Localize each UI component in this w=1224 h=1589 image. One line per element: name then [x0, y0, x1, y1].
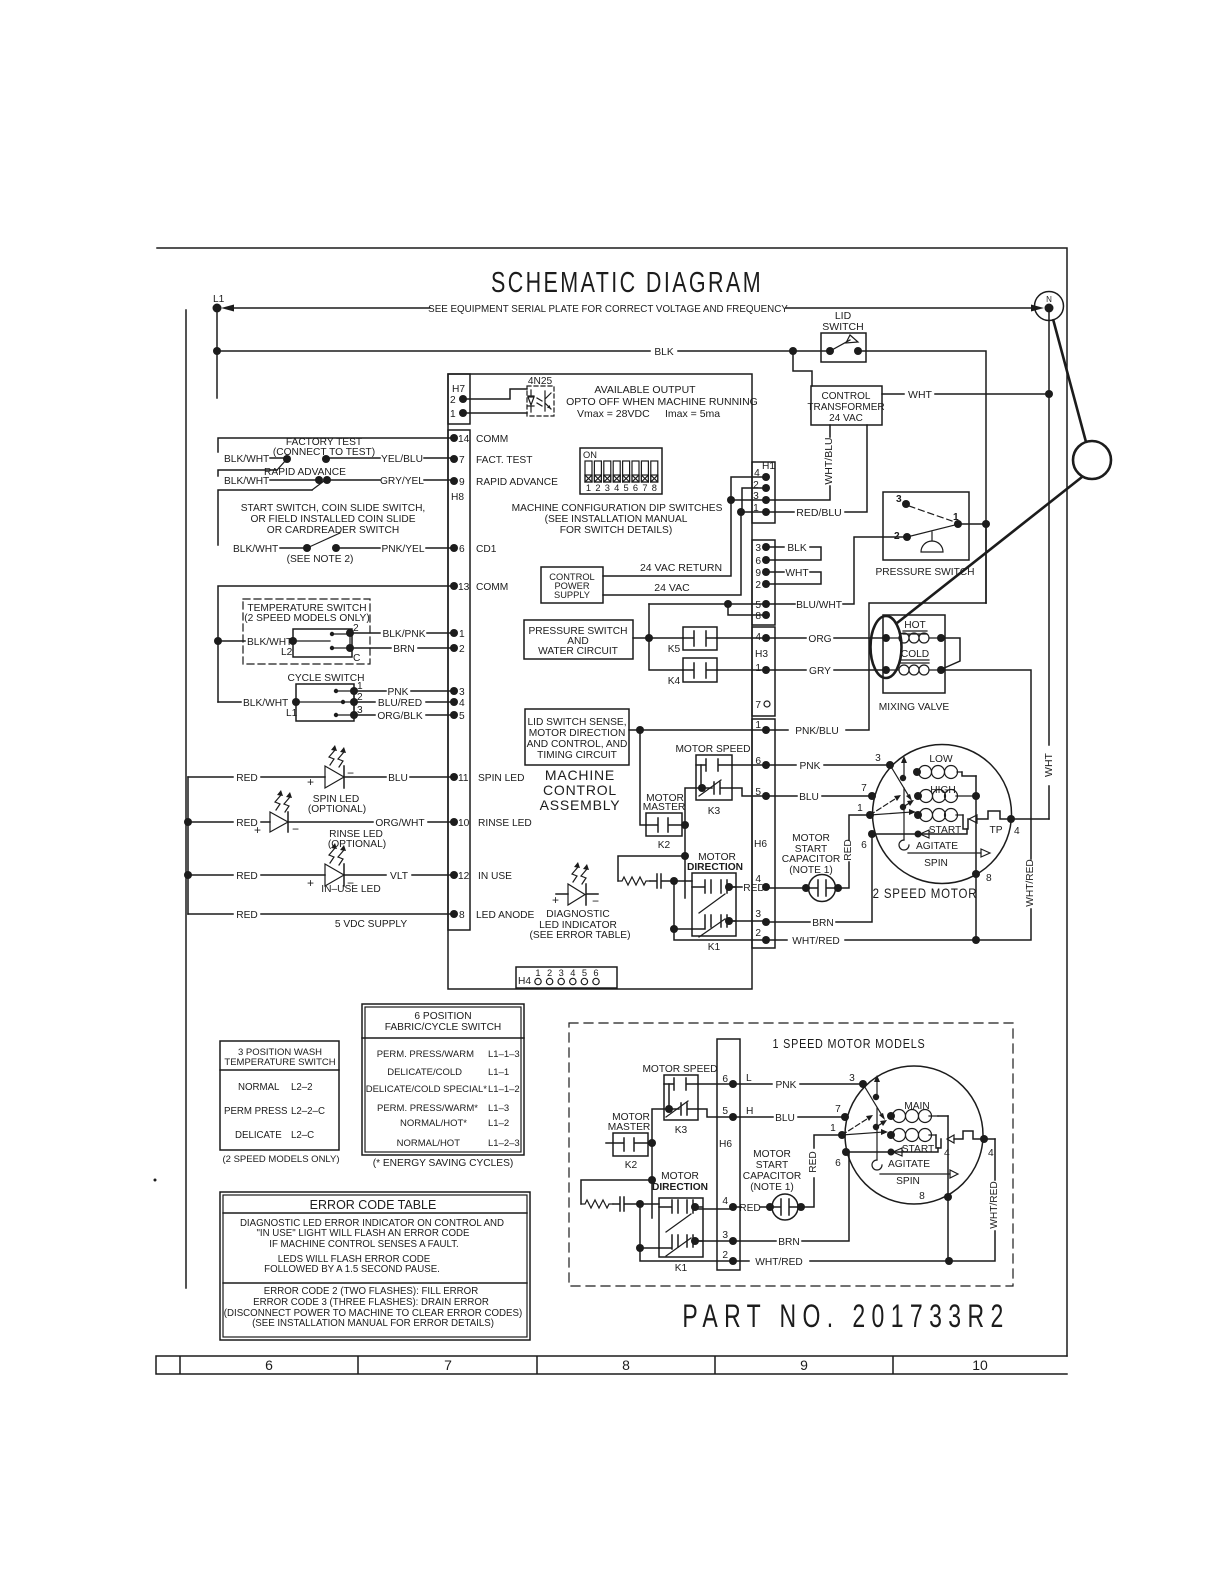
svg-text:4: 4: [988, 1148, 994, 1159]
svg-text:+: +: [307, 775, 314, 789]
svg-text:WHT: WHT: [785, 568, 808, 579]
svg-text:4: 4: [1014, 826, 1020, 837]
svg-text:OPTO OFF WHEN MACHINE RUNNING: OPTO OFF WHEN MACHINE RUNNING: [566, 396, 758, 408]
svg-text:WHT/RED: WHT/RED: [792, 936, 840, 947]
relay contact K2 (1 speed): [606, 1112, 652, 1171]
pin 2: [755, 580, 770, 591]
svg-text:NORMAL: NORMAL: [238, 1082, 280, 1093]
svg-text:RED: RED: [808, 1151, 819, 1173]
svg-text:MACHINE CONFIGURATION DIP SWIT: MACHINE CONFIGURATION DIP SWITCHES: [512, 503, 723, 514]
svg-text:RED: RED: [739, 1203, 761, 1214]
svg-text:PNK: PNK: [800, 761, 821, 772]
svg-text:OR FIELD INSTALLED COIN SLIDE: OR FIELD INSTALLED COIN SLIDE: [250, 514, 415, 525]
svg-text:BLK/WHT: BLK/WHT: [224, 476, 269, 487]
svg-text:13: 13: [458, 582, 470, 593]
svg-text:Imax = 5ma: Imax = 5ma: [665, 408, 720, 420]
pin 5: [450, 711, 465, 722]
svg-text:AVAILABLE OUTPUT: AVAILABLE OUTPUT: [594, 384, 696, 396]
svg-text:AGITATE: AGITATE: [888, 1159, 930, 1170]
svg-text:YEL/BLU: YEL/BLU: [381, 454, 423, 465]
svg-text:K2: K2: [658, 840, 671, 851]
svg-text:(* ENERGY SAVING CYCLES): (* ENERGY SAVING CYCLES): [373, 1158, 514, 1169]
svg-text:9: 9: [459, 477, 465, 488]
svg-text:DIRECTION: DIRECTION: [687, 862, 743, 873]
wire snubber/K1 to WHT/RED: [670, 881, 766, 940]
svg-text:5 VDC SUPPLY: 5 VDC SUPPLY: [335, 919, 407, 930]
svg-text:2: 2: [755, 580, 761, 591]
svg-text:−: −: [592, 894, 599, 908]
svg-text:4: 4: [570, 968, 575, 978]
svg-text:LED ANODE: LED ANODE: [476, 910, 535, 921]
rinse LED: [188, 790, 454, 850]
svg-text:START: START: [756, 1160, 788, 1171]
right strip segment 4 (H6): [752, 719, 775, 948]
pin 13 COMM: [450, 582, 508, 593]
svg-text:VLT: VLT: [390, 871, 408, 882]
svg-text:MOTOR: MOTOR: [661, 1171, 699, 1182]
svg-text:RED: RED: [236, 910, 258, 921]
svg-text:BLU/RED: BLU/RED: [378, 698, 422, 709]
svg-text:TIMING CIRCUIT: TIMING CIRCUIT: [537, 750, 617, 761]
pin 4: [450, 698, 465, 709]
wire 24 VAC: [603, 512, 741, 595]
relay contact K1 (1 speed): [652, 1171, 708, 1274]
svg-text:COMM: COMM: [476, 434, 508, 445]
wire K1 to pin 4 RED: [729, 886, 742, 888]
svg-text:7: 7: [861, 783, 867, 794]
svg-text:3: 3: [559, 968, 564, 978]
svg-text:GRY: GRY: [809, 666, 831, 677]
svg-text:3: 3: [605, 483, 610, 493]
wire BLK: [213, 347, 830, 358]
svg-text:RED: RED: [843, 839, 854, 861]
svg-text:L1: L1: [286, 708, 298, 719]
svg-text:H3: H3: [755, 649, 768, 660]
wire WHT jumper pins 9-2: [766, 568, 821, 584]
svg-text:DELICATE: DELICATE: [235, 1130, 282, 1141]
svg-text:BRN: BRN: [778, 1237, 800, 1248]
svg-text:8: 8: [755, 611, 761, 622]
relay contact K3 (motor speed): [675, 744, 766, 817]
svg-text:1: 1: [459, 629, 465, 640]
pin 9 RAPID ADVANCE: [450, 477, 558, 488]
LOW winding: [913, 754, 976, 779]
svg-text:−: −: [292, 822, 299, 836]
svg-text:ERROR CODE 2 (TWO FLASHES): FI: ERROR CODE 2 (TWO FLASHES): FILL ERROR: [264, 1286, 478, 1297]
wire BLU to terminal 7 (1 speed): [733, 1104, 849, 1124]
pressure switch and water circuit box: [524, 620, 683, 659]
svg-text:ORG: ORG: [808, 634, 831, 645]
svg-text:H4: H4: [518, 976, 531, 987]
wire BLU to motor terminal 7: [766, 783, 876, 803]
svg-text:AGITATE: AGITATE: [916, 841, 958, 852]
HIGH winding: [914, 785, 980, 803]
svg-text:LOW: LOW: [929, 754, 953, 765]
svg-text:AND CONTROL, AND: AND CONTROL, AND: [527, 739, 628, 750]
svg-text:WHT/RED: WHT/RED: [1025, 859, 1036, 907]
svg-text:L2: L2: [281, 647, 293, 658]
svg-text:5: 5: [624, 483, 629, 493]
svg-text:4: 4: [722, 1196, 728, 1207]
svg-text:3: 3: [849, 1073, 855, 1084]
pin 6 PNK: [755, 756, 770, 769]
svg-text:2: 2: [755, 928, 761, 939]
svg-text:2: 2: [722, 1250, 728, 1261]
svg-text:NORMAL/HOT: NORMAL/HOT: [397, 1138, 461, 1149]
svg-text:C: C: [353, 653, 360, 664]
rapid advance switch row: [218, 467, 454, 490]
error code table: [220, 1192, 530, 1340]
svg-text:RAPID ADVANCE: RAPID ADVANCE: [264, 467, 346, 478]
svg-text:BRN: BRN: [393, 644, 415, 655]
svg-text:BLU: BLU: [388, 773, 408, 784]
svg-text:SWITCH: SWITCH: [822, 321, 863, 333]
pin 1 GRY: [755, 663, 770, 674]
wire BLK to control transformer: [793, 351, 812, 386]
pin 3: [450, 687, 465, 698]
svg-text:8: 8: [986, 873, 992, 884]
svg-text:6: 6: [265, 1357, 273, 1373]
svg-text:6: 6: [755, 556, 761, 567]
svg-text:WATER CIRCUIT: WATER CIRCUIT: [538, 646, 618, 657]
RC snubber (1 speed): [581, 1180, 659, 1211]
svg-text:MASTER: MASTER: [608, 1122, 650, 1133]
svg-text:FOLLOWED BY A 1.5 SECOND PAUSE: FOLLOWED BY A 1.5 SECOND PAUSE.: [264, 1264, 440, 1275]
svg-text:8: 8: [652, 483, 657, 493]
svg-text:L1–2: L1–2: [488, 1118, 509, 1129]
svg-text:H8: H8: [451, 492, 464, 503]
connector H7: [448, 374, 470, 424]
svg-text:7: 7: [642, 483, 647, 493]
wire BLK jumper pins 3-6: [766, 543, 821, 560]
svg-text:L1: L1: [213, 294, 225, 305]
wire lid switch to pressure switch pin1: [858, 351, 986, 603]
mixing valve: [879, 615, 950, 713]
speed selector arrows: [870, 756, 916, 850]
svg-text:TRANSFORMER: TRANSFORMER: [807, 402, 884, 413]
svg-text:PERM. PRESS/WARM: PERM. PRESS/WARM: [377, 1049, 474, 1060]
svg-text:PART NO. 201733R2: PART NO. 201733R2: [682, 1298, 1009, 1334]
svg-text:START SWITCH, COIN SLIDE SWITC: START SWITCH, COIN SLIDE SWITCH,: [241, 503, 426, 514]
1 speed motor: [845, 1066, 983, 1204]
svg-text:1: 1: [535, 968, 540, 978]
agitate/spin arrows: [872, 829, 990, 869]
svg-text:PERM. PRESS/WARM*: PERM. PRESS/WARM*: [377, 1103, 478, 1114]
svg-text:PRESSURE SWITCH: PRESSURE SWITCH: [875, 567, 974, 578]
connector H8 strip (left): [448, 430, 470, 930]
svg-text:L1–1–2: L1–1–2: [488, 1084, 520, 1095]
svg-text:L2–2: L2–2: [291, 1082, 313, 1093]
text available output note: [566, 384, 758, 420]
speed selector arrows (1 speed): [842, 1075, 888, 1170]
wire GRY: [766, 666, 886, 677]
svg-text:GRY/YEL: GRY/YEL: [380, 476, 424, 487]
wire snubber/K1 to WHT/RED (1 speed): [636, 1204, 733, 1261]
relay contact K2 (motor master): [643, 793, 685, 851]
svg-text:MACHINE: MACHINE: [545, 767, 615, 783]
svg-text:SCHEMATIC DIAGRAM: SCHEMATIC DIAGRAM: [491, 267, 763, 299]
factory test switch row: [218, 437, 454, 470]
svg-text:(2 SPEED MODELS ONLY): (2 SPEED MODELS ONLY): [244, 613, 370, 624]
svg-text:BLK: BLK: [787, 543, 806, 554]
machine control assembly box: [448, 374, 752, 989]
svg-text:TP: TP: [989, 825, 1002, 836]
svg-text:K1: K1: [675, 1263, 688, 1274]
relay contact K1 (motor direction): [687, 852, 743, 953]
svg-text:BLU: BLU: [775, 1113, 795, 1124]
svg-text:ERROR CODE 3 (THREE FLASHES):: ERROR CODE 3 (THREE FLASHES): DRAIN ERRO…: [253, 1297, 489, 1308]
5VDC supply rail: [184, 777, 192, 914]
svg-text:(OPTIONAL): (OPTIONAL): [308, 804, 366, 815]
svg-text:2: 2: [894, 531, 900, 542]
START winding: [914, 809, 968, 837]
svg-text:SPIN: SPIN: [924, 858, 948, 869]
svg-text:BLU/WHT: BLU/WHT: [796, 600, 842, 611]
svg-text:PNK/BLU: PNK/BLU: [795, 726, 839, 737]
svg-text:MOTOR: MOTOR: [792, 833, 830, 844]
svg-text:1: 1: [857, 803, 863, 814]
svg-text:CAPACITOR: CAPACITOR: [782, 854, 841, 865]
2 speed motor: [873, 745, 1012, 902]
svg-text:TEMPERATURE SWITCH: TEMPERATURE SWITCH: [224, 1057, 335, 1068]
pin 4 ORG: [755, 632, 770, 643]
wire RED/BLU (transformer to H1 pin1): [737, 425, 867, 519]
pin 3 BRN: [755, 909, 770, 926]
node L1: [213, 294, 235, 313]
svg-text:FACT. TEST: FACT. TEST: [476, 455, 532, 466]
svg-text:BLK: BLK: [654, 347, 673, 358]
relay contact K5: [668, 627, 766, 655]
svg-text:6 POSITION: 6 POSITION: [414, 1011, 471, 1022]
svg-text:6: 6: [633, 483, 638, 493]
svg-text:RAPID ADVANCE: RAPID ADVANCE: [476, 477, 558, 488]
svg-text:WHT: WHT: [1043, 752, 1055, 776]
svg-text:(SEE NOTE 2): (SEE NOTE 2): [287, 554, 354, 565]
pin 1: [450, 629, 465, 640]
cycle switch: [218, 673, 454, 722]
motor terminal 1: [857, 803, 874, 819]
svg-text:3: 3: [722, 1230, 728, 1241]
svg-text:8: 8: [622, 1357, 630, 1373]
svg-text:K5: K5: [668, 644, 681, 655]
relay contact K3 (1 speed): [642, 1064, 733, 1136]
svg-text:−: −: [347, 766, 354, 780]
svg-text:L: L: [746, 1073, 752, 1084]
svg-text:MIXING VALVE: MIXING VALVE: [879, 702, 950, 713]
svg-text:FOR SWITCH DETAILS): FOR SWITCH DETAILS): [560, 525, 672, 536]
svg-text:7: 7: [444, 1357, 452, 1373]
svg-text:4: 4: [614, 483, 619, 493]
svg-text:CONTROL: CONTROL: [822, 391, 871, 402]
svg-text:7: 7: [755, 700, 761, 711]
right strip segment 3 (H3): [752, 627, 775, 716]
svg-text:WHT/BLU: WHT/BLU: [823, 437, 835, 484]
pin 2 WHT/RED: [755, 928, 770, 944]
START winding (1 speed): [887, 1129, 950, 1160]
svg-text:2: 2: [753, 480, 759, 491]
svg-text:WHT/RED: WHT/RED: [989, 1181, 1000, 1229]
svg-text:IN–USE LED: IN–USE LED: [321, 884, 380, 895]
pin 9 WHT: [755, 568, 770, 579]
terminal 6 (1 speed): [835, 1148, 850, 1169]
svg-text:+: +: [307, 876, 314, 890]
svg-text:ERROR CODE TABLE: ERROR CODE TABLE: [310, 1198, 437, 1212]
svg-text:L1–1–3: L1–1–3: [488, 1049, 520, 1060]
svg-text:+: +: [552, 893, 559, 907]
thermal protector TP: [969, 811, 1011, 836]
svg-text:K3: K3: [675, 1125, 688, 1136]
pin 2: [450, 644, 465, 655]
svg-text:(SEE INSTALLATION MANUAL: (SEE INSTALLATION MANUAL: [545, 514, 688, 525]
relay contact K4: [668, 658, 766, 687]
svg-text:BRN: BRN: [812, 918, 834, 929]
pin 14 COMM: [450, 434, 508, 445]
svg-text:2: 2: [547, 968, 552, 978]
wire PNK to terminal 3 (1 speed): [733, 1073, 867, 1091]
wire PNK/BLU: [629, 524, 986, 737]
pin 5 BLU/WHT: [755, 600, 770, 611]
svg-text:CYCLE SWITCH: CYCLE SWITCH: [288, 673, 365, 684]
svg-text:3: 3: [896, 494, 902, 505]
svg-text:H7: H7: [452, 384, 465, 395]
svg-text:N: N: [1046, 295, 1052, 304]
svg-text:(2 SPEED MODELS ONLY): (2 SPEED MODELS ONLY): [222, 1154, 339, 1165]
svg-text:MOTOR: MOTOR: [753, 1149, 791, 1160]
svg-text:WHT/RED: WHT/RED: [755, 1257, 803, 1268]
wire lid switch sense to K2: [640, 730, 646, 825]
wire WHT (transformer to N): [882, 306, 1055, 819]
terminal 1 (1 speed): [830, 1123, 846, 1139]
svg-text:+: +: [254, 823, 261, 837]
MAIN winding: [887, 1101, 948, 1123]
svg-text:7: 7: [835, 1104, 841, 1115]
6 position fabric/cycle switch table: [362, 1004, 524, 1169]
pin 11 SPIN LED: [450, 773, 524, 784]
svg-text:L2–C: L2–C: [291, 1130, 314, 1141]
in-use LED: [188, 843, 454, 895]
start switch row: [218, 490, 454, 565]
RC snubber (2 speed): [618, 856, 692, 888]
thermal protector (1 speed): [947, 1131, 984, 1143]
svg-text:FABRIC/CYCLE SWITCH: FABRIC/CYCLE SWITCH: [385, 1022, 502, 1033]
svg-text:HOT: HOT: [904, 620, 926, 631]
svg-text:4N25: 4N25: [528, 376, 553, 387]
svg-text:1: 1: [450, 409, 456, 420]
svg-text:DELICATE/COLD SPECIAL*: DELICATE/COLD SPECIAL*: [366, 1084, 488, 1095]
diagnostic LED indicator: [530, 862, 631, 941]
svg-text:6: 6: [861, 840, 867, 851]
svg-text:7: 7: [459, 455, 465, 466]
svg-text:K1: K1: [708, 942, 721, 953]
svg-text:RINSE LED: RINSE LED: [478, 818, 532, 829]
svg-text:6: 6: [835, 1158, 841, 1169]
svg-text:(NOTE 1): (NOTE 1): [789, 865, 833, 876]
svg-text:1: 1: [753, 503, 759, 514]
svg-text:24 VAC RETURN: 24 VAC RETURN: [640, 562, 722, 574]
svg-text:2 SPEED MOTOR: 2 SPEED MOTOR: [873, 886, 978, 901]
svg-text:2: 2: [459, 644, 465, 655]
motor start capacitor label (1 speed): [743, 1149, 802, 1193]
lid switch sense box: [525, 709, 629, 765]
svg-text:MOTOR DIRECTION: MOTOR DIRECTION: [529, 728, 626, 739]
svg-text:MOTOR SPEED: MOTOR SPEED: [642, 1064, 717, 1075]
svg-text:2: 2: [595, 483, 600, 493]
svg-text:(SEE ERROR TABLE): (SEE ERROR TABLE): [530, 930, 631, 941]
svg-text:1: 1: [830, 1123, 836, 1134]
connector H6 (1 speed): [717, 1039, 740, 1270]
opto-isolator 4N25: [463, 376, 554, 416]
pin 8 LED ANODE: [450, 910, 535, 921]
svg-text:4: 4: [755, 632, 761, 643]
svg-text:WHT: WHT: [908, 389, 932, 401]
wire 24 VAC RETURN: [603, 477, 766, 576]
svg-text:10: 10: [458, 818, 470, 829]
svg-text:MASTER: MASTER: [643, 802, 685, 813]
pin 1 PNK/BLU: [755, 720, 770, 734]
pin 7 FACT. TEST: [450, 455, 532, 466]
svg-text:IF MACHINE CONTROL SENSES A FA: IF MACHINE CONTROL SENSES A FAULT.: [269, 1239, 458, 1250]
led anode wire: [188, 910, 454, 930]
svg-text:CAPACITOR: CAPACITOR: [743, 1171, 802, 1182]
wire K3/K2 rail: [681, 788, 702, 898]
svg-text:14: 14: [458, 434, 470, 445]
svg-text:L1–2–3: L1–2–3: [488, 1138, 520, 1149]
pin 6: [755, 556, 770, 567]
svg-text:3: 3: [459, 687, 465, 698]
svg-text:PNK: PNK: [388, 687, 409, 698]
svg-text:1: 1: [586, 483, 591, 493]
1 speed motor models box: [569, 1023, 1013, 1286]
svg-text:K4: K4: [668, 676, 681, 687]
svg-text:9: 9: [755, 568, 761, 579]
svg-text:ORG/BLK: ORG/BLK: [377, 711, 422, 722]
svg-text:BLK/WHT: BLK/WHT: [243, 698, 288, 709]
wire BRN: [729, 834, 872, 929]
svg-text:CONTROL: CONTROL: [543, 782, 617, 798]
svg-text:H1: H1: [762, 461, 775, 472]
svg-text:DIRECTION: DIRECTION: [652, 1182, 708, 1193]
svg-text:4: 4: [459, 698, 465, 709]
svg-text:K2: K2: [625, 1160, 638, 1171]
wire L1 (SEE EQUIPMENT SERIAL PLATE...): [217, 304, 1044, 398]
agitate/spin arrows (1 speed): [846, 1148, 958, 1187]
svg-text:RED: RED: [236, 871, 258, 882]
svg-text:IN USE: IN USE: [478, 871, 512, 882]
connector H1: [742, 461, 775, 523]
svg-text:RED: RED: [743, 883, 765, 894]
svg-text:5: 5: [582, 968, 587, 978]
svg-text:BLU: BLU: [799, 792, 819, 803]
svg-text:H: H: [746, 1106, 753, 1117]
svg-text:LID SWITCH SENSE,: LID SWITCH SENSE,: [527, 717, 626, 728]
svg-text:PNK/YEL: PNK/YEL: [381, 544, 424, 555]
wire PNK to motor terminal 3: [766, 753, 894, 772]
svg-text:3: 3: [875, 753, 881, 764]
pin 4 RED: [755, 874, 770, 891]
svg-text:SPIN LED: SPIN LED: [478, 773, 524, 784]
svg-text:SUPPLY: SUPPLY: [554, 590, 590, 600]
DIP switch S1: [512, 448, 723, 536]
svg-text:5: 5: [755, 600, 761, 611]
wire BRN (1 speed): [695, 1152, 849, 1248]
svg-text:8: 8: [919, 1191, 925, 1202]
connector H4: [516, 967, 617, 988]
svg-text:(SEE INSTALLATION MANUAL FOR E: (SEE INSTALLATION MANUAL FOR ERROR DETAI…: [252, 1318, 494, 1329]
svg-text:9: 9: [800, 1357, 808, 1373]
pin 7 (no connection): [755, 700, 770, 711]
motor start capacitor (2 speed): [766, 815, 870, 902]
pin 12 IN USE: [450, 871, 512, 882]
